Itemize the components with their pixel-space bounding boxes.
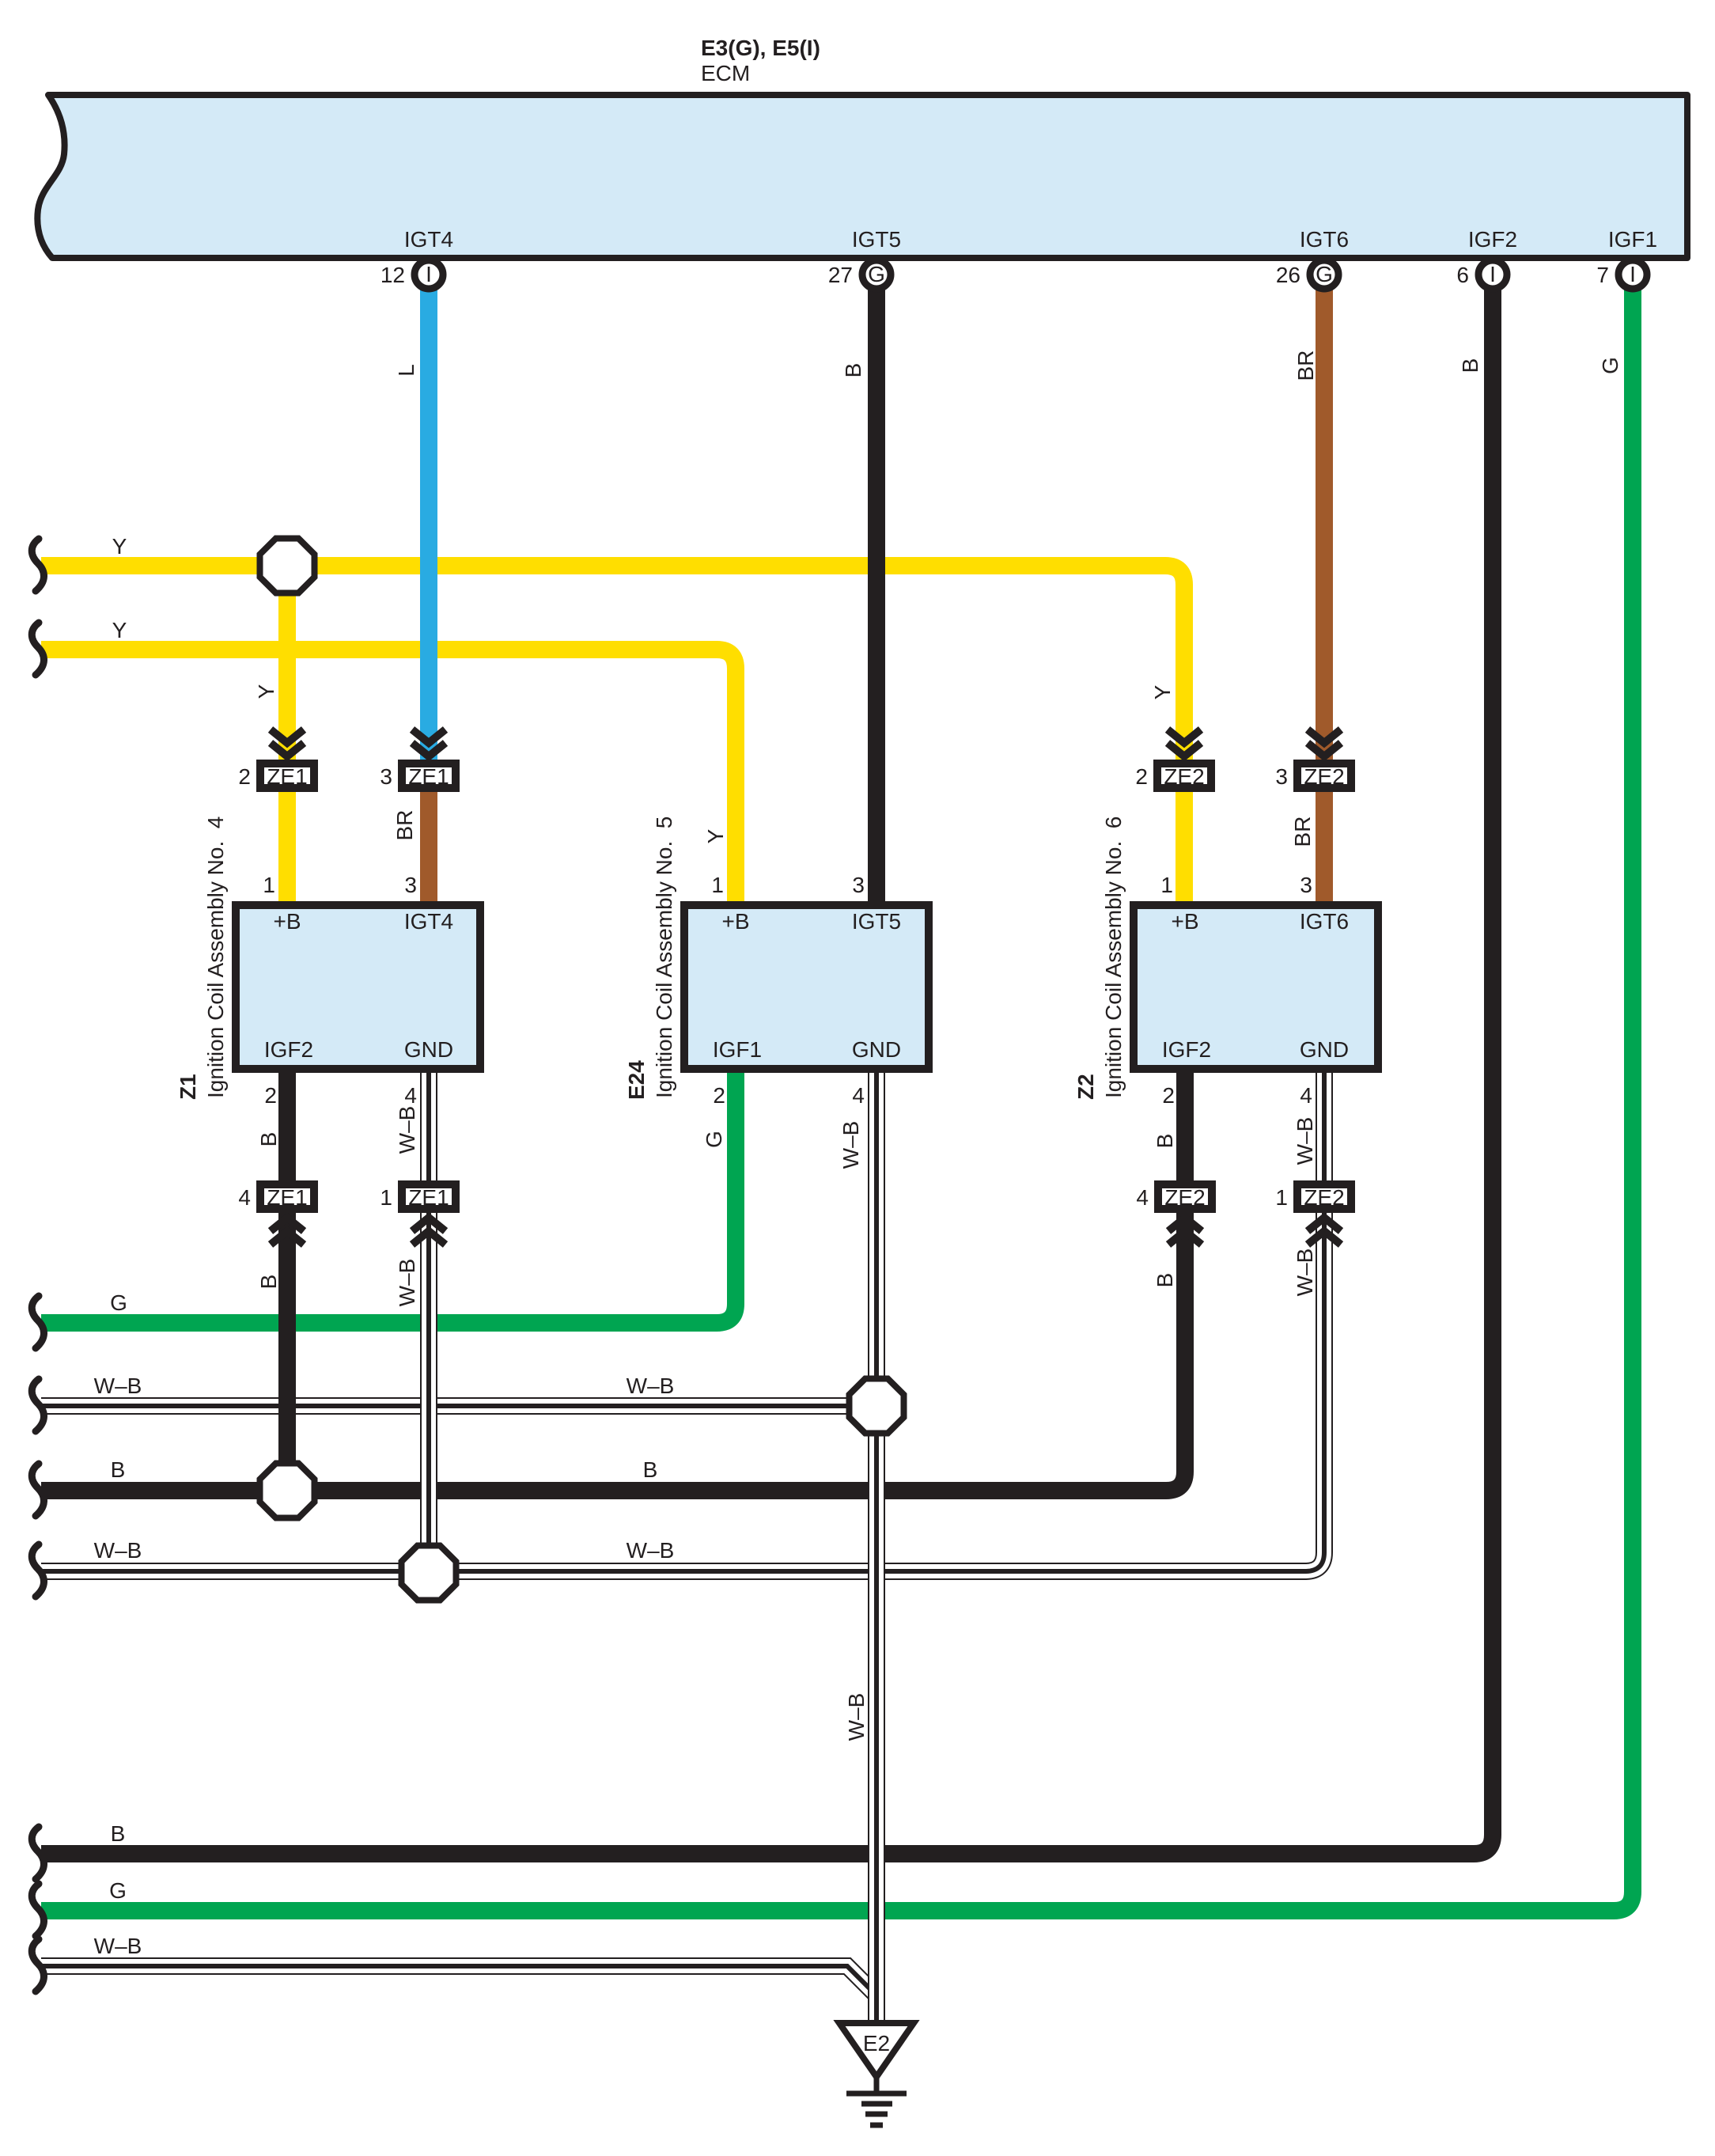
svg-text:2: 2	[238, 764, 251, 789]
wire break symbol (W-B upper)	[32, 1379, 44, 1431]
svg-text:Y: Y	[112, 618, 127, 642]
wire break symbol (B bottom)	[32, 1827, 44, 1879]
wire G from coil No.5 IGF1 down and left to break	[41, 1069, 736, 1323]
svg-text:W–B: W–B	[627, 1538, 675, 1563]
svg-text:E3(G), E5(I): E3(G), E5(I)	[701, 36, 820, 60]
ignition coil assembly No.4 box Z1	[236, 905, 480, 1069]
wire G from ECM IGF1 pin 7 down and left to break	[41, 286, 1633, 1911]
svg-text:1: 1	[263, 873, 275, 897]
svg-text:IGT4: IGT4	[404, 909, 453, 934]
svg-text:1: 1	[380, 1185, 392, 1210]
wire B from ECM IGT5 pin 27 down to coil No.5 IGT5	[868, 286, 885, 905]
svg-text:B: B	[1153, 1273, 1177, 1288]
svg-text:IGF1: IGF1	[1608, 227, 1657, 252]
ECM pin 26 IGT6 terminal	[1310, 260, 1338, 289]
svg-text:IGF2: IGF2	[1468, 227, 1517, 252]
svg-text:4: 4	[1136, 1185, 1149, 1210]
junction node (W-B splice lower)	[402, 1546, 456, 1601]
svg-text:B: B	[643, 1457, 658, 1482]
wire BR from ECM IGT6 pin 26 down to coil No.6 IGT6	[1316, 290, 1333, 905]
svg-text:B: B	[111, 1457, 126, 1482]
svg-text:ZE2: ZE2	[1304, 1185, 1344, 1210]
svg-text:ZE1: ZE1	[408, 764, 449, 789]
ignition coil assembly No.6 box Z2	[1134, 905, 1378, 1069]
svg-text:2: 2	[713, 1083, 725, 1108]
svg-text:3: 3	[380, 764, 392, 789]
svg-text:W–B: W–B	[844, 1693, 869, 1741]
svg-text:Y: Y	[703, 828, 728, 843]
ground E2 symbol	[839, 2023, 914, 2077]
wire break symbol (W-B bottom)	[32, 1939, 44, 1991]
svg-text:I: I	[1630, 262, 1636, 286]
svg-text:BR: BR	[1293, 350, 1318, 381]
svg-text:4: 4	[404, 1083, 417, 1108]
connector ZE2 pin 2 (chevron in)	[1168, 729, 1201, 756]
svg-text:IGF2: IGF2	[1162, 1037, 1211, 1062]
svg-text:BR: BR	[1290, 817, 1315, 847]
svg-text:E24: E24	[624, 1060, 649, 1100]
wire W-B horizontal (lower) from break up to coil No.6 GND	[41, 1069, 1324, 1571]
svg-text:Y: Y	[254, 684, 278, 699]
svg-text:4: 4	[238, 1185, 251, 1210]
connector ZE2 pin 1 (chevron out)	[1297, 1184, 1352, 1211]
connector ZE1 pin 1 (chevron out)	[402, 1184, 456, 1211]
wire break symbol (G mid)	[32, 1296, 44, 1348]
connector ZE1 pin 4 (chevron out)	[260, 1184, 315, 1211]
svg-text:4: 4	[1300, 1083, 1312, 1108]
ECM module box E3(G),E5(I)	[37, 95, 1687, 258]
svg-text:1: 1	[1275, 1185, 1288, 1210]
svg-text:ZE2: ZE2	[1164, 764, 1204, 789]
wire BR from ZE1-3 to coil No.4 IGT4	[420, 775, 437, 905]
svg-text:1: 1	[711, 873, 724, 897]
svg-text:Y: Y	[112, 534, 127, 559]
svg-text:ZE1: ZE1	[267, 1185, 307, 1210]
svg-text:ZE2: ZE2	[1304, 764, 1344, 789]
svg-text:G: G	[1316, 262, 1333, 286]
svg-text:B: B	[1153, 1134, 1177, 1149]
svg-text:B: B	[841, 363, 865, 378]
wire B from coil No.4 IGF2 down to junction	[278, 1069, 296, 1491]
wire Y horizontal (second) to ignition coil No.5 +B	[41, 650, 736, 905]
svg-text:W–B: W–B	[1293, 1117, 1317, 1165]
svg-text:GND: GND	[1300, 1037, 1349, 1062]
svg-text:GND: GND	[404, 1037, 453, 1062]
junction node (W-B splice upper)	[850, 1379, 904, 1434]
svg-text:W–B: W–B	[839, 1121, 863, 1169]
svg-text:+B: +B	[273, 909, 301, 934]
wire W-B from coil No.5 GND down to E2 ground	[868, 1069, 885, 2023]
svg-text:G: G	[702, 1131, 726, 1148]
wire break symbol (G bottom)	[32, 1884, 44, 1936]
svg-text:E2: E2	[863, 2031, 890, 2056]
svg-text:3: 3	[1300, 873, 1312, 897]
svg-text:B: B	[1458, 358, 1482, 373]
svg-text:W–B: W–B	[94, 1374, 142, 1398]
svg-text:1: 1	[1160, 873, 1173, 897]
svg-text:G: G	[868, 262, 885, 286]
svg-text:Y: Y	[1150, 684, 1175, 699]
svg-text:IGF2: IGF2	[264, 1037, 313, 1062]
svg-text:Z2: Z2	[1073, 1074, 1098, 1100]
svg-text:12: 12	[380, 263, 405, 287]
svg-text:W–B: W–B	[627, 1374, 675, 1398]
connector ZE2 pin 4 (chevron out)	[1158, 1184, 1213, 1211]
svg-text:IGT6: IGT6	[1300, 909, 1349, 934]
svg-text:6: 6	[1456, 263, 1469, 287]
svg-text:Ignition Coil Assembly No. 6: Ignition Coil Assembly No. 6	[1101, 817, 1126, 1098]
svg-text:2: 2	[1162, 1083, 1175, 1108]
svg-text:B: B	[256, 1275, 281, 1290]
svg-text:3: 3	[852, 873, 865, 897]
svg-text:B: B	[256, 1132, 281, 1147]
ignition coil assembly No.5 box E24	[684, 905, 929, 1069]
svg-text:W–B: W–B	[395, 1259, 419, 1307]
svg-text:4: 4	[852, 1083, 865, 1108]
svg-text:W–B: W–B	[94, 1538, 142, 1563]
svg-text:B: B	[111, 1821, 126, 1846]
svg-text:Z1: Z1	[176, 1074, 200, 1100]
svg-text:I: I	[426, 262, 432, 286]
svg-text:3: 3	[404, 873, 417, 897]
svg-text:L: L	[394, 364, 418, 377]
svg-text:ZE1: ZE1	[267, 764, 307, 789]
svg-text:ECM: ECM	[701, 61, 750, 85]
svg-text:+B: +B	[1171, 909, 1198, 934]
svg-text:G: G	[110, 1290, 127, 1315]
svg-text:26: 26	[1276, 263, 1300, 287]
wire break symbol (Y second)	[32, 623, 44, 675]
svg-text:2: 2	[264, 1083, 277, 1108]
wire break symbol (B mid)	[32, 1464, 44, 1516]
svg-text:Ignition Coil Assembly No. 5: Ignition Coil Assembly No. 5	[652, 817, 676, 1098]
svg-text:3: 3	[1275, 764, 1288, 789]
svg-text:IGT5: IGT5	[852, 227, 901, 252]
wire W-B horizontal (upper) from break to junction	[41, 1397, 876, 1415]
wire Y branch down to ignition coil No.4 +B	[278, 566, 296, 905]
junction node (B splice)	[260, 1464, 315, 1518]
svg-text:W–B: W–B	[94, 1934, 142, 1958]
svg-text:2: 2	[1135, 764, 1148, 789]
svg-text:W–B: W–B	[395, 1106, 419, 1154]
junction node (Y splice)	[260, 539, 315, 593]
svg-text:ZE1: ZE1	[408, 1185, 449, 1210]
ECM pin 27 IGT5 terminal	[862, 260, 891, 289]
svg-text:W–B: W–B	[1293, 1249, 1317, 1297]
wire Y horizontal (top) from break to IGT coil branch, node at junction	[41, 566, 1184, 905]
connector ZE1 pin 2 (chevron in)	[271, 729, 304, 756]
svg-text:27: 27	[828, 263, 853, 287]
svg-text:IGT5: IGT5	[852, 909, 901, 934]
ECM pin 6 IGF2 terminal	[1478, 260, 1507, 289]
wire break symbol (Y top)	[32, 539, 44, 591]
svg-text:Ignition Coil Assembly No. 4: Ignition Coil Assembly No. 4	[203, 817, 228, 1098]
wire break symbol (W-B lower)	[32, 1544, 44, 1597]
wire B from ECM IGF2 pin 6 down and left to break	[41, 286, 1493, 1854]
svg-text:G: G	[1598, 357, 1622, 374]
svg-text:GND: GND	[852, 1037, 901, 1062]
connector ZE2 pin 3 (chevron in)	[1308, 729, 1341, 756]
svg-text:7: 7	[1596, 263, 1609, 287]
svg-text:BR: BR	[392, 810, 417, 841]
connector ZE1 pin 3 (chevron in)	[412, 729, 445, 756]
ECM pin 12 IGT4 terminal	[415, 260, 443, 289]
wire W-B from coil No.4 GND down to junction	[420, 1069, 437, 1573]
svg-text:G: G	[109, 1878, 127, 1903]
wire L from ECM IGT4 pin 12 down to ZE1-3	[420, 286, 437, 779]
svg-text:IGF1: IGF1	[713, 1037, 762, 1062]
svg-text:IGT6: IGT6	[1300, 227, 1349, 252]
wire B horizontal from break through junction up to coil No.6 IGF2	[41, 1069, 1185, 1491]
svg-text:+B: +B	[721, 909, 749, 934]
wire W-B bottom horizontal from break merging to ground lead	[41, 1966, 876, 1995]
svg-text:IGT4: IGT4	[404, 227, 453, 252]
ECM pin 7 IGF1 terminal	[1618, 260, 1647, 289]
svg-text:ZE2: ZE2	[1164, 1185, 1205, 1210]
svg-text:I: I	[1490, 262, 1496, 286]
